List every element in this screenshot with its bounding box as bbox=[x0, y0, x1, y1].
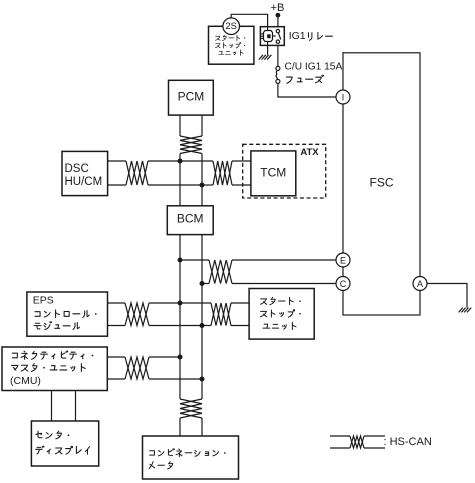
legend HS-CAN twisted pair bbox=[330, 436, 385, 448]
svg-text:BCM: BCM bbox=[177, 212, 204, 226]
wire bus to BCM bbox=[180, 161, 202, 206]
center display box bbox=[31, 421, 98, 466]
wire CMU to bus lower bbox=[107, 378, 202, 380]
wire +B to relay switch bbox=[277, 15, 279, 27]
junction dot C row bbox=[200, 281, 205, 286]
connector 2S bbox=[223, 18, 240, 35]
start-stop unit (right) box bbox=[249, 289, 314, 340]
twisted pair (CMU) bbox=[125, 357, 149, 379]
wire DSC to bus CAN-H bbox=[108, 160, 180, 162]
combination meter box bbox=[143, 436, 239, 479]
BCM box bbox=[167, 206, 213, 235]
connector E bbox=[336, 253, 350, 267]
svg-text:A: A bbox=[417, 279, 423, 289]
wire EPS to bus upper bbox=[108, 302, 181, 304]
wire bus to start-stop unit upper bbox=[180, 302, 249, 304]
wire DSC to bus CAN-L bbox=[108, 184, 202, 186]
junction dot start-stop row bbox=[200, 323, 205, 328]
svg-text:TCM: TCM bbox=[260, 165, 286, 179]
junction dot CMU lower bbox=[200, 377, 205, 382]
wire EPS to bus lower bbox=[108, 325, 203, 327]
wire bus to start-stop unit lower bbox=[202, 325, 249, 327]
svg-text:HU/CM: HU/CM bbox=[65, 176, 103, 188]
twisted pair (TCM) bbox=[213, 161, 232, 185]
CMU box bbox=[2, 347, 107, 391]
wire bus to connector C bbox=[202, 283, 336, 285]
wire fuse to connector I bbox=[278, 83, 336, 97]
connector C bbox=[336, 277, 350, 291]
svg-text:+B: +B bbox=[271, 2, 285, 14]
wire bus to TCM CAN-H bbox=[180, 160, 251, 162]
twisted pair (EPS) bbox=[125, 303, 149, 326]
svg-text:FSC: FSC bbox=[370, 176, 394, 190]
svg-text:I: I bbox=[342, 92, 345, 102]
connector A bbox=[413, 277, 427, 291]
EPS box bbox=[27, 292, 108, 336]
wire switch to fuse bbox=[277, 45, 279, 66]
wire bus to TCM CAN-L bbox=[202, 184, 251, 186]
wire 2S to relay coil bbox=[231, 14, 267, 26]
wire BCM down CAN-L bbox=[201, 235, 203, 399]
wire A to ground bbox=[427, 284, 467, 308]
svg-text:C: C bbox=[340, 279, 347, 289]
svg-text:: HS-CAN: : HS-CAN bbox=[384, 436, 432, 448]
relay IG1 box bbox=[260, 27, 284, 46]
twisted pair (DSC) bbox=[126, 161, 148, 185]
wire bus to connector E bbox=[180, 259, 336, 261]
twisted pair (combination meter) bbox=[180, 399, 202, 418]
DSC HU/CM box bbox=[62, 151, 108, 195]
svg-text:C/U IG1 15A: C/U IG1 15A bbox=[285, 61, 343, 72]
relay coil bbox=[261, 27, 276, 46]
junction dot E row bbox=[178, 258, 183, 263]
TCM box bbox=[251, 151, 296, 196]
svg-text:IG1: IG1 bbox=[289, 30, 306, 42]
wire braid to combination meter bbox=[180, 418, 202, 436]
relay switch bbox=[276, 29, 281, 43]
twisted pair (FSC E/C) bbox=[209, 260, 232, 284]
svg-text:E: E bbox=[340, 255, 346, 265]
svg-text:EPS: EPS bbox=[33, 295, 54, 307]
junction dot CMU upper bbox=[178, 355, 183, 360]
start-stop unit (top) label bbox=[215, 35, 245, 40]
+B node dot bbox=[276, 13, 281, 18]
svg-text:ATX: ATX bbox=[300, 147, 319, 158]
connector I bbox=[336, 90, 350, 104]
wire CMU to center display right bbox=[75, 391, 77, 422]
twisted pair (PCM) bbox=[180, 136, 202, 154]
svg-text:2S: 2S bbox=[225, 21, 237, 32]
FSC box bbox=[343, 53, 420, 315]
junction dot EPS row bbox=[178, 301, 183, 306]
PCM box bbox=[169, 80, 214, 115]
start-stop unit (top) box bbox=[209, 26, 254, 64]
wire braid to bus junctions bbox=[180, 154, 202, 186]
wire BCM down CAN-H bbox=[179, 235, 181, 399]
junction dot bus CAN-H top bbox=[178, 159, 183, 164]
ground (relay) bbox=[259, 55, 272, 60]
ground (FSC) bbox=[459, 308, 472, 313]
junction dot bus CAN-L top bbox=[200, 183, 205, 188]
wire CMU to center display left bbox=[51, 391, 53, 422]
svg-text:DSC: DSC bbox=[65, 163, 89, 175]
svg-text:PCM: PCM bbox=[178, 90, 205, 104]
svg-text:(CMU): (CMU) bbox=[10, 375, 41, 387]
fuse C/U IG1 15A bbox=[276, 66, 280, 83]
twisted pair (start-stop) bbox=[211, 303, 231, 326]
wire PCM CAN-H vertical bbox=[179, 115, 181, 136]
wire coil to ground bbox=[267, 45, 269, 54]
wire CMU to bus upper bbox=[107, 356, 180, 358]
ATX dashed box bbox=[243, 144, 326, 198]
wire PCM CAN-L vertical bbox=[201, 115, 203, 136]
